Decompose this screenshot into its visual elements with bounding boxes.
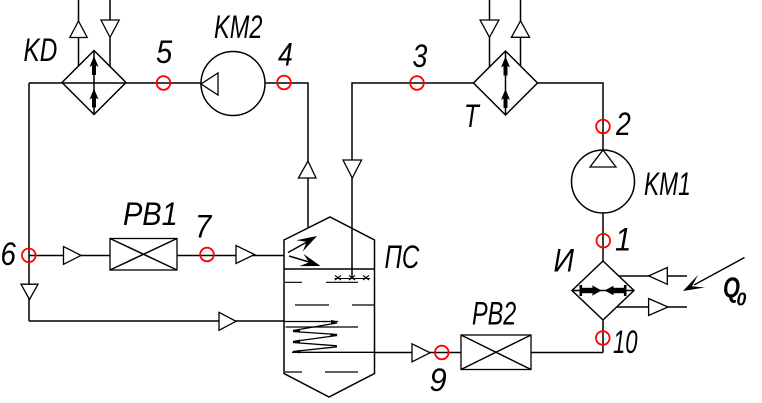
wire node6 to PB1 to vessel bbox=[29, 255, 284, 257]
svg-text:3: 3 bbox=[413, 39, 428, 75]
wire evaporator bottom to node10 to PB2 rail bbox=[602, 320, 604, 353]
T line right (up arrow) bbox=[511, 0, 529, 66]
flow triangle down below node6 bbox=[21, 284, 38, 299]
KD cooling line left (up arrow) bbox=[70, 0, 87, 66]
flow triangle after node7 bbox=[236, 246, 255, 264]
svg-text:ПС: ПС bbox=[385, 240, 420, 276]
node 3 bbox=[410, 76, 424, 90]
vessel shading dashes bbox=[285, 305, 375, 372]
flow triangle before node9 bbox=[412, 344, 430, 362]
svg-text:0: 0 bbox=[737, 289, 747, 310]
vessel liquid level with marks bbox=[285, 276, 370, 283]
svg-text:9: 9 bbox=[430, 361, 447, 398]
svg-text:5: 5 bbox=[156, 34, 173, 71]
evaporator И bbox=[572, 261, 634, 320]
heat exchanger T bbox=[474, 51, 538, 115]
node 4 bbox=[277, 76, 291, 90]
vessel ПС body bbox=[284, 217, 375, 397]
svg-text:KM1: KM1 bbox=[644, 166, 691, 202]
svg-text:2: 2 bbox=[615, 107, 631, 143]
svg-text:PB1: PB1 bbox=[123, 195, 178, 232]
node 2 bbox=[596, 120, 610, 134]
vessel coil bbox=[284, 322, 375, 353]
node 9 bbox=[435, 346, 449, 360]
node 5 bbox=[157, 76, 171, 90]
node 7 bbox=[200, 248, 214, 262]
wire KM1 bottom to evaporator top bbox=[602, 213, 604, 261]
compressor KM2 bbox=[201, 52, 265, 116]
flow triangle after node6 bbox=[64, 247, 82, 265]
svg-text:1: 1 bbox=[615, 221, 631, 258]
wire top rail left: elbow to KD to node5 to KM2 bbox=[29, 82, 201, 84]
vessel spray arrows from PB1 inlet bbox=[288, 236, 321, 266]
expansion valve PB1 bbox=[110, 239, 177, 271]
KD cooling line right (down arrow) bbox=[101, 0, 119, 67]
flow triangle down on x352 line bbox=[343, 160, 362, 178]
vessel separator line bbox=[284, 268, 375, 270]
Q0 heat flow arrow bbox=[683, 258, 745, 292]
svg-text:T: T bbox=[464, 99, 481, 135]
evaporator external loop top (left arrow) bbox=[618, 268, 687, 285]
svg-text:И: И bbox=[554, 243, 575, 279]
T line left (down arrow) bbox=[480, 0, 499, 67]
wire vessel to node3 to T left vertex bbox=[352, 83, 474, 279]
svg-text:KD: KD bbox=[24, 33, 58, 69]
svg-text:4: 4 bbox=[278, 37, 293, 73]
condenser KD bbox=[62, 51, 126, 115]
svg-text:10: 10 bbox=[613, 324, 638, 360]
svg-text:7: 7 bbox=[195, 208, 213, 245]
svg-text:PB2: PB2 bbox=[472, 295, 516, 332]
expansion valve PB2 bbox=[461, 335, 531, 370]
svg-text:KM2: KM2 bbox=[214, 10, 263, 47]
wire left vertical node6 down bbox=[28, 83, 30, 321]
wire T right vertex to elbow down to KM1 bbox=[538, 83, 604, 150]
evaporator external loop bottom (right arrow) bbox=[617, 299, 687, 316]
wire bottom-left horizontal into vessel coil bbox=[29, 320, 284, 322]
node 6 bbox=[22, 249, 36, 263]
wire vessel exit to node9 to PB2 to node10 riser bbox=[375, 352, 604, 354]
flow triangle up on x308 riser bbox=[298, 161, 316, 178]
node 1 bbox=[597, 234, 611, 248]
wire KM2 right to elbow to vessel roof bbox=[265, 83, 308, 228]
compressor KM1 bbox=[572, 150, 635, 213]
svg-text:6: 6 bbox=[1, 237, 17, 273]
node 10 bbox=[596, 331, 610, 345]
flow triangle bottom-left wire bbox=[219, 312, 236, 330]
